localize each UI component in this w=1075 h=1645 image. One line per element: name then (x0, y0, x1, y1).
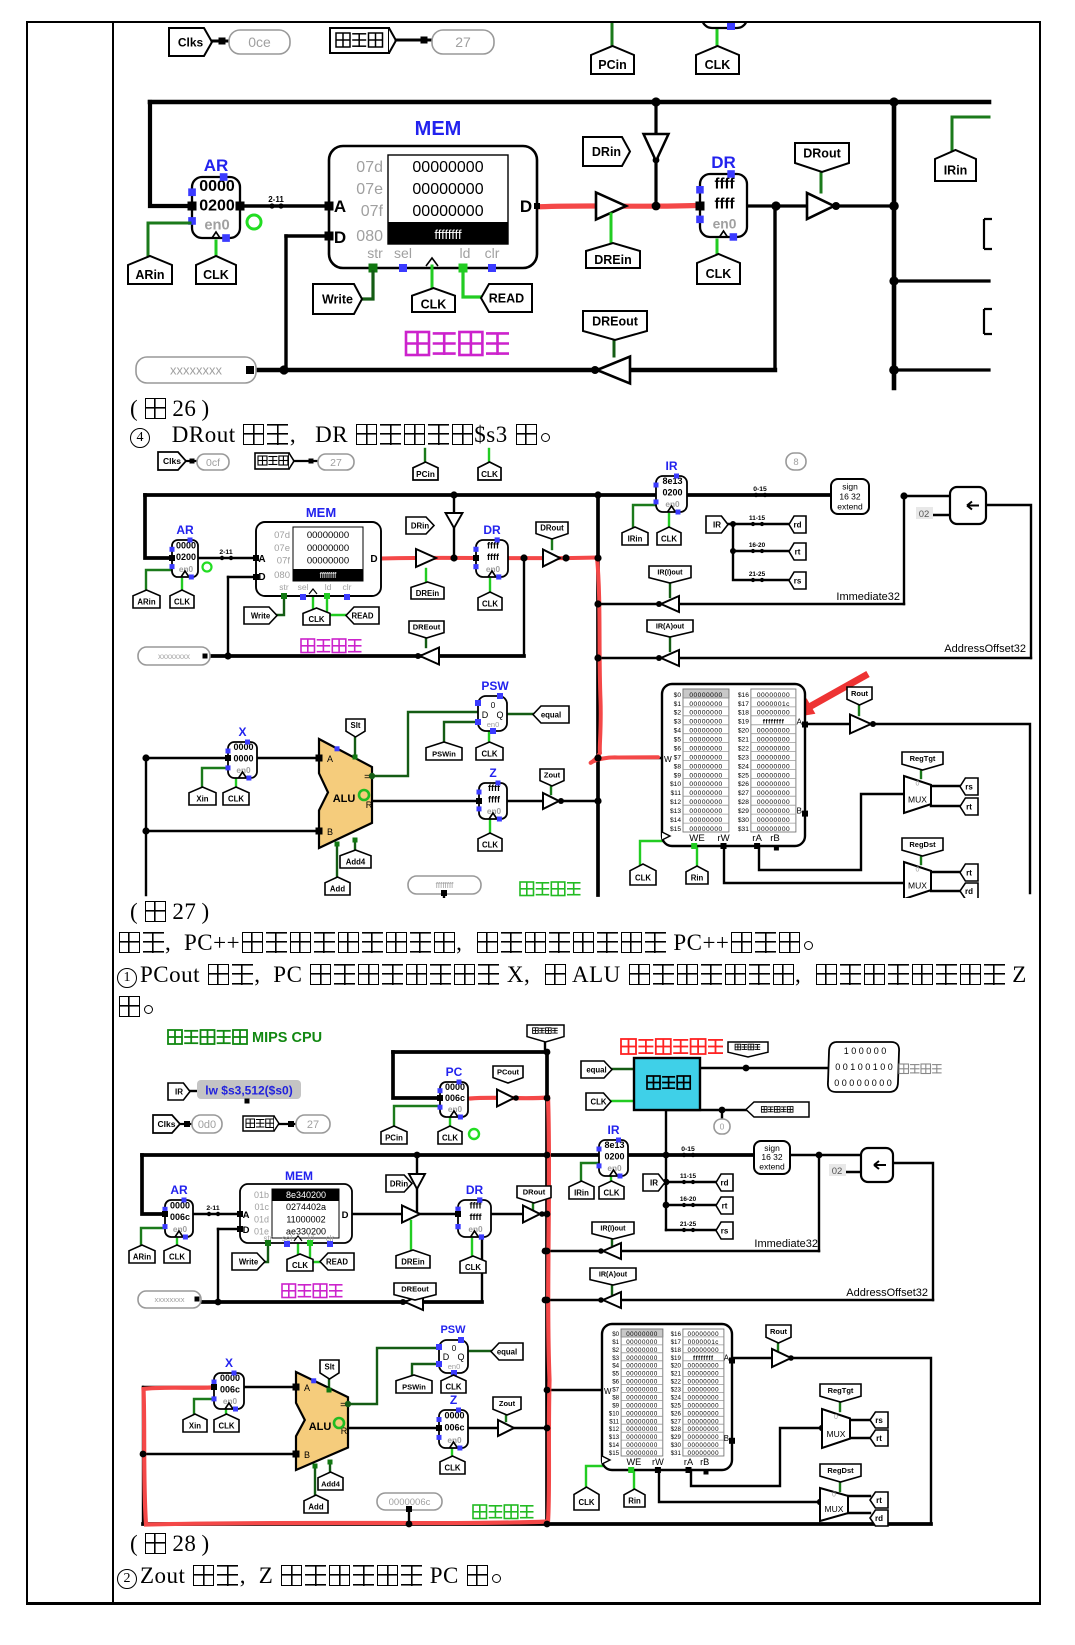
wire: MEM D input vertical (284, 236, 287, 370)
svg-text:A: A (243, 1210, 250, 1221)
wire: PC out to internal bus (468, 1097, 547, 1099)
junction MUX2 out (817, 1499, 823, 1505)
wire: IR CLK green (610, 1177, 612, 1182)
svg-text:ffffffff: ffffffff (320, 571, 338, 580)
label PCin (591, 46, 634, 74)
junction (520, 554, 527, 561)
svg-text:xxxxxxxx: xxxxxxxx (158, 652, 190, 661)
register file fig27 (662, 684, 808, 851)
svg-text:0000: 0000 (170, 1201, 190, 1211)
svg-text:B: B (724, 1434, 729, 1443)
value box ffffffff (408, 876, 481, 894)
junction (544, 1521, 551, 1528)
pin MEM D output (534, 203, 540, 209)
ALU fig27 (319, 739, 372, 848)
memory MEM fig27 (256, 505, 381, 600)
wire: Z out to internal bus (507, 800, 598, 802)
text line 另外 PC++... (117, 930, 825, 956)
svg-text:Write: Write (251, 611, 271, 620)
svg-text:rW: rW (652, 1457, 664, 1467)
svg-text:$4: $4 (612, 1363, 619, 1370)
label Rin fig28 (624, 1489, 645, 1507)
controller box 控制器 (634, 1058, 700, 1110)
label PCout (493, 1066, 523, 1083)
text 内部总线 fig27 (cropped) (520, 882, 581, 896)
pin AR input (162, 1211, 168, 1217)
wire: Zout green (550, 786, 552, 794)
svg-text:0: 0 (491, 701, 496, 710)
junction (594, 797, 601, 804)
svg-text:WE: WE (626, 1457, 641, 1467)
svg-text:AR: AR (170, 1183, 188, 1197)
label rd out (960, 883, 978, 899)
wire: MEM D vertical (217, 1229, 219, 1302)
label DRin (406, 517, 434, 534)
wire: PCin green up (611, 0, 614, 45)
splice 0-15 fig28 (679, 1146, 698, 1157)
svg-text:AddressOffset32: AddressOffset32 (944, 643, 1026, 655)
wire: rd field fig28 (661, 1181, 716, 1183)
svg-text:00000000: 00000000 (307, 530, 349, 541)
svg-text:00000000: 00000000 (307, 556, 349, 567)
pin Z input (476, 798, 482, 804)
label rs fig28 (716, 1222, 733, 1239)
svg-text:$14: $14 (609, 1442, 620, 1449)
wire: DRout green (551, 538, 553, 549)
label CLK (AR) (170, 590, 194, 608)
label IRin fig28 (569, 1181, 594, 1199)
wire: rW to MUX2 (659, 1470, 822, 1502)
svg-text:$6: $6 (612, 1379, 619, 1386)
wire: MEM D to DR (352, 1213, 458, 1215)
cropped label box right edge 2 (984, 309, 992, 334)
wire: ALU B input (146, 830, 319, 832)
svg-text:Q: Q (496, 710, 503, 720)
svg-text:Write: Write (239, 1257, 259, 1266)
register file fig28 (602, 1324, 735, 1475)
svg-text:07d: 07d (356, 159, 383, 176)
label DREin fig28 (396, 1250, 430, 1268)
label Rout fig28 (766, 1325, 791, 1343)
selection ring AR (247, 215, 261, 229)
svg-text:CLK: CLK (218, 1422, 234, 1431)
svg-text:$31: $31 (738, 826, 749, 833)
svg-text:rA: rA (752, 833, 762, 844)
svg-text:D: D (443, 1352, 450, 1362)
svg-text:CLK: CLK (578, 1498, 594, 1507)
junction external bus / D col (279, 365, 288, 374)
pin AR output (236, 202, 245, 211)
label rt2 fig28 out (870, 1492, 888, 1508)
svg-text:PCin: PCin (416, 470, 435, 479)
wire: MUX1 rs (850, 1419, 870, 1421)
svg-text:11000002: 11000002 (286, 1214, 325, 1224)
svg-text:$2: $2 (674, 710, 682, 717)
junction (142, 754, 149, 761)
svg-text:DRout: DRout (540, 524, 564, 533)
wire: Rin green (696, 848, 698, 866)
wire: PSWin green (444, 722, 478, 743)
buffer DREout fig28 (405, 1294, 423, 1310)
wire DREout green (613, 340, 616, 356)
wire: internal bus bottom fig28 (143, 1522, 931, 1526)
wire: Zout green (505, 1415, 507, 1421)
svg-text:rB: rB (700, 1457, 709, 1467)
wire: bus down to DRin (416, 1155, 418, 1214)
register DR fig28 (455, 1183, 491, 1240)
junction bus/DRin (651, 97, 660, 106)
svg-text:AR: AR (204, 156, 229, 175)
selection ring PC (469, 1129, 479, 1139)
wire: Z out to internal bus (468, 1427, 547, 1429)
label Zout (540, 769, 564, 786)
junction (719, 1107, 726, 1114)
svg-text:21-25: 21-25 (680, 1221, 697, 1228)
svg-text:0-15: 0-15 (753, 486, 767, 493)
svg-text:0200: 0200 (604, 1152, 624, 1162)
label READ (481, 284, 532, 312)
MUX RegDst (904, 862, 931, 899)
svg-text:27: 27 (330, 457, 342, 469)
junction bus/internal (889, 97, 898, 106)
svg-text:Zout: Zout (499, 1399, 516, 1408)
svg-text:IR(A)out: IR(A)out (656, 621, 685, 630)
value box 27 (318, 454, 354, 470)
text 外部总线 (external bus) (406, 332, 509, 355)
wire: Add4 green (354, 840, 356, 851)
svg-text:11-15: 11-15 (680, 1173, 696, 1180)
wire: internal bus fig28 (545, 1052, 549, 1524)
junction (594, 491, 601, 498)
wire: X to ALU A (244, 1386, 306, 1388)
svg-text:DR: DR (466, 1183, 484, 1197)
svg-text:2-11: 2-11 (268, 195, 284, 204)
pin (421, 37, 428, 44)
wire: AddressOffset32 bus fig27 (598, 657, 1031, 659)
wire: PSWin green (412, 1364, 439, 1376)
label Write fig28 (232, 1253, 265, 1270)
svg-text:Slt: Slt (325, 1362, 335, 1371)
buffer Zout fig28 (498, 1420, 514, 1436)
svg-text:IR: IR (650, 1178, 658, 1187)
wire: Add4 green (329, 1462, 331, 1473)
svg-text:ALU: ALU (333, 793, 356, 805)
splice 2-11 fig28 (204, 1205, 223, 1216)
svg-text:07e: 07e (274, 543, 290, 554)
wire: X input (146, 757, 228, 759)
junction (730, 548, 736, 554)
label CLK (MEM) (303, 608, 330, 625)
label 内部总线 tag (527, 1025, 564, 1042)
text line 中。 (117, 994, 165, 1020)
pin (246, 366, 254, 374)
MUX RegDst fig28 (820, 1488, 848, 1521)
svg-text:rt: rt (876, 1496, 882, 1505)
wire: X CLK green (235, 779, 237, 788)
svg-text:0cf: 0cf (206, 457, 220, 469)
svg-text:0: 0 (834, 1414, 838, 1421)
svg-text:R: R (366, 800, 373, 810)
splice 16-20 (748, 542, 767, 553)
pin Add (335, 842, 340, 847)
svg-text:0: 0 (452, 1344, 457, 1353)
label rt out (960, 798, 978, 815)
text 微程序控制器 (red title) (621, 1039, 723, 1054)
svg-text:006c: 006c (445, 1093, 465, 1103)
pin Slt (327, 1388, 332, 1393)
pin (203, 654, 208, 659)
label ARin (128, 256, 172, 284)
wire: equal to controller (610, 1068, 634, 1070)
wire: regfile CLK green (640, 841, 662, 865)
label equal (533, 706, 569, 723)
text line ①PCout... (117, 962, 1027, 988)
junction (598, 1297, 604, 1303)
label rt (789, 543, 806, 560)
svg-text:PSW: PSW (481, 679, 509, 693)
pin ALU A (293, 1384, 300, 1391)
svg-text:11-15: 11-15 (749, 515, 765, 522)
sign-extend fig27 (831, 479, 869, 514)
svg-text:rt: rt (966, 868, 972, 877)
svg-text:ffff: ffff (715, 175, 736, 192)
svg-text:21-25: 21-25 (749, 571, 766, 578)
junction (656, 601, 662, 607)
wire: top internal bus fig26 (150, 100, 989, 105)
svg-text:DR: DR (483, 523, 501, 537)
wire: PSW CLK green (488, 732, 490, 743)
svg-text:equal: equal (586, 1065, 606, 1074)
label CLK (PC) (478, 462, 501, 480)
wire: internal bus vertical fig27 (596, 495, 600, 895)
wire: Xin green (202, 768, 228, 788)
junction (594, 754, 601, 761)
svg-text:16-20: 16-20 (680, 1196, 697, 1203)
svg-text:ffff: ffff (487, 552, 500, 562)
junction Immediate32 (889, 276, 898, 285)
register X (226, 725, 258, 781)
svg-text:IRin: IRin (628, 535, 643, 544)
wire: IRin green (633, 505, 656, 529)
label ARin fig28 (129, 1245, 155, 1263)
svg-text:B: B (797, 807, 803, 816)
wire: PC loop left (393, 1052, 440, 1098)
svg-text:00000000: 00000000 (412, 159, 483, 176)
svg-text:READ: READ (351, 611, 373, 620)
wire: Add green (314, 1466, 316, 1496)
pin (406, 1506, 412, 1512)
svg-text:CLK: CLK (442, 1134, 458, 1143)
wire: MEM CLK green (312, 596, 314, 609)
svg-text:Add: Add (330, 885, 345, 894)
junction AddressOffset32 (889, 365, 899, 375)
label CLK (PSW) fig28 (441, 1375, 466, 1393)
svg-text:CLK: CLK (465, 1263, 481, 1272)
svg-text:IR: IR (608, 1123, 620, 1137)
wire: probe stub (408, 1510, 410, 1524)
wire: controller to control bus box (700, 1067, 829, 1069)
label CLK (Z) (478, 833, 502, 851)
label PSWin (426, 742, 462, 760)
red highlight: PC -> bus -> X loop (144, 1098, 550, 1525)
svg-text:B: B (327, 827, 333, 837)
wire: MUX2 rt (848, 1495, 870, 1497)
value box 0000006c (377, 1493, 442, 1510)
wire: IRin green (952, 117, 989, 150)
svg-text:CLK: CLK (481, 750, 497, 759)
wire: Slt green (354, 738, 356, 756)
value box xxxxxxxx fig28 (138, 1291, 201, 1308)
junction (663, 1179, 670, 1186)
svg-text:ld: ld (325, 582, 332, 592)
label equal PSW fig28 (491, 1343, 523, 1360)
splice 11-15 fig28 (679, 1173, 698, 1184)
label 指令数 (255, 453, 294, 469)
wire: Xin green (194, 1399, 214, 1415)
svg-text:Rout: Rout (851, 689, 869, 698)
wire: MUX1 rt (850, 1437, 870, 1439)
wire: READ green (310, 1246, 322, 1262)
wire clks (180, 1123, 192, 1125)
svg-text:AR: AR (176, 523, 194, 537)
svg-text:0000: 0000 (445, 1082, 465, 1092)
label Zout fig28 (493, 1397, 521, 1415)
buffer DRin (446, 513, 463, 528)
svg-text:rd: rd (965, 887, 973, 896)
label DREin (586, 243, 640, 268)
svg-text:$27: $27 (738, 790, 749, 797)
register Z (477, 766, 508, 822)
pin DR input (455, 1211, 461, 1217)
svg-text:07f: 07f (361, 203, 384, 220)
svg-text:ARin: ARin (133, 1253, 151, 1262)
svg-text:READ: READ (489, 292, 524, 306)
svg-text:Add4: Add4 (346, 858, 366, 867)
svg-text:Rin: Rin (628, 1497, 641, 1506)
value box 27 (432, 30, 494, 54)
buffer DRout fig28 (523, 1206, 540, 1223)
svg-text:A: A (258, 554, 265, 565)
buffer Rout fig28 (772, 1349, 791, 1367)
label rd fig28 out (870, 1510, 888, 1526)
svg-text:MEM: MEM (285, 1169, 313, 1183)
wire: main bus fig28 (142, 1153, 754, 1157)
buffer Zout (543, 793, 559, 809)
svg-text:W: W (604, 1387, 612, 1396)
wire: IR(A)out green (611, 1284, 613, 1294)
svg-text:080: 080 (356, 228, 383, 245)
pin Slt (353, 755, 358, 760)
buffer DRout (807, 193, 834, 219)
junction DR input line (652, 202, 661, 211)
pin (727, 22, 735, 30)
svg-text:DRout: DRout (523, 1188, 546, 1197)
label Slt (346, 719, 365, 737)
wire: regfile A out via Rout (805, 724, 1030, 893)
pin ALU B (316, 828, 323, 835)
wire: to shifter (819, 1154, 861, 1156)
wire DRout green (820, 172, 823, 192)
cropped label box right edge 1 (984, 219, 992, 249)
svg-text:PCin: PCin (385, 1134, 403, 1143)
svg-text:$15: $15 (609, 1450, 620, 1457)
pin = output (369, 773, 375, 779)
svg-text:en0: en0 (204, 218, 229, 234)
junction (544, 1152, 551, 1159)
junction Rout buffer (870, 721, 876, 727)
wire: Z CLK green (451, 1449, 453, 1457)
wire: stub to 0 (721, 1110, 723, 1119)
label DREout (583, 311, 647, 340)
svg-text:en0: en0 (448, 1362, 461, 1371)
wire: 02 stub (932, 514, 950, 516)
label CLK (X) fig28 (214, 1414, 239, 1432)
wire: ALU R to Z (348, 1427, 439, 1429)
svg-text:rt: rt (966, 802, 972, 811)
svg-text:D: D (258, 572, 265, 583)
wire MEM CLK green (431, 266, 434, 288)
svg-text:00000000: 00000000 (688, 1450, 720, 1457)
svg-text:$15: $15 (670, 826, 681, 833)
label DRin fig28 (386, 1175, 412, 1192)
wire: regfile A via Rout (732, 1358, 931, 1524)
svg-text:rd: rd (721, 1178, 729, 1187)
label CLK (AR) (196, 256, 236, 284)
wire: AR CLK green (181, 579, 183, 592)
svg-text:DRin: DRin (592, 145, 621, 159)
svg-text:01d: 01d (254, 1214, 269, 1224)
register Z fig28 (437, 1393, 469, 1451)
label rt fig28 (716, 1197, 733, 1214)
wire: MEM D horizontal (228, 576, 256, 578)
ALU fig28 (296, 1372, 348, 1470)
svg-text:$2: $2 (612, 1347, 619, 1354)
svg-text:CLK: CLK (635, 874, 651, 883)
pin = output fig28 (345, 1401, 351, 1407)
svg-text:DRin: DRin (411, 521, 429, 530)
svg-text:$30: $30 (671, 1442, 682, 1449)
svg-text:0000: 0000 (220, 1373, 240, 1383)
pin MEM D in (253, 574, 259, 580)
pin AR input (188, 202, 197, 211)
svg-text:$23: $23 (671, 1387, 682, 1394)
svg-text:D: D (243, 1225, 250, 1236)
buffer DREin (MEM to DR) (416, 549, 436, 567)
label Xin (189, 787, 216, 805)
label CLK (DR) (478, 592, 502, 610)
svg-text:$26: $26 (671, 1410, 682, 1417)
table column divider (112, 21, 114, 1604)
wire: RegDst green (920, 856, 922, 864)
label Add fig28 (304, 1495, 328, 1513)
svg-text:rB: rB (770, 833, 780, 844)
wire: DR output to internal bus (508, 557, 598, 559)
table border top (26, 21, 1041, 23)
label DRout (536, 522, 568, 539)
svg-text:$30: $30 (738, 817, 749, 824)
svg-text:$6: $6 (674, 746, 682, 753)
label READ (346, 607, 379, 624)
svg-text:8: 8 (793, 457, 798, 468)
wire: top bus fig27 (145, 493, 831, 497)
svg-text:rs: rs (794, 576, 802, 585)
wire: signext down to Immediate32 (818, 1155, 820, 1251)
svg-text:A: A (334, 197, 346, 216)
svg-text:MUX: MUX (827, 1429, 846, 1439)
svg-text:0200: 0200 (176, 552, 196, 562)
label CLK (PC) (696, 46, 739, 74)
svg-text:0 0 0 0 0 0 0 0: 0 0 0 0 0 0 0 0 (834, 1078, 892, 1088)
